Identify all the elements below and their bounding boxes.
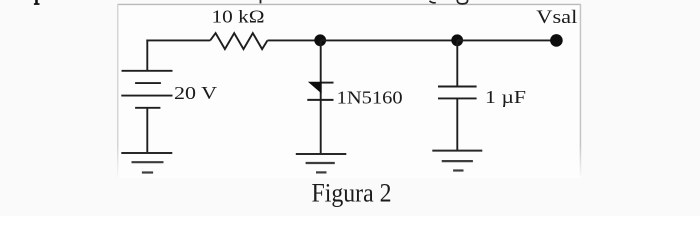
cropped text fragment: bottom of letter loop at top	[457, 0, 467, 4]
wire: resistor to node A	[268, 39, 321, 41]
wire: node B down to capacitor	[456, 40, 458, 86]
zener diode D1 triangle	[308, 82, 322, 94]
wire: battery top lead	[146, 40, 148, 71]
cropped text fragment: letter stem at top-left	[34, 0, 40, 5]
wire: top horizontal from battery to resistor	[146, 39, 210, 41]
battery V1 plate short lower	[135, 107, 160, 109]
ground symbol right	[432, 151, 482, 171]
svg-text:1N5160: 1N5160	[337, 87, 403, 107]
svg-text:20 V: 20 V	[174, 83, 217, 103]
frame box border right	[580, 4, 582, 176]
svg-text:1 µF: 1 µF	[485, 87, 526, 107]
node B junction dot	[451, 34, 463, 46]
ground symbol left	[121, 153, 172, 173]
battery V1 plate long lower	[121, 95, 172, 97]
wire: battery bottom lead	[146, 108, 148, 153]
resistor R (10 kOhm) zigzag	[210, 33, 267, 49]
output terminal dot Vsal	[550, 34, 563, 47]
frame box background	[118, 4, 581, 178]
frame box border left	[117, 4, 118, 177]
svg-text:Figura 2: Figura 2	[312, 178, 392, 207]
zener diode D1 cathode bar	[307, 99, 333, 101]
frame box border top	[118, 3, 581, 5]
zener diode D1 top bar	[321, 82, 334, 84]
wire: capacitor to ground	[456, 98, 458, 150]
capacitor C1 bottom plate	[438, 97, 477, 99]
svg-text:10 kΩ: 10 kΩ	[212, 7, 265, 27]
battery V1 plate long top	[122, 70, 173, 72]
cropped text fragment: descender tail near top center-right	[430, 1, 436, 3]
wire: node B to output terminal	[457, 39, 556, 41]
wire: node A to node B	[321, 39, 458, 41]
cropped text fragment: letter stem above resistor label	[260, 0, 262, 3]
svg-text:Vsal: Vsal	[536, 7, 577, 28]
battery V1 plate short	[135, 82, 161, 84]
wire: node A down to zener anode	[320, 40, 322, 154]
node A junction dot	[314, 34, 326, 46]
capacitor C1 top plate	[438, 86, 477, 88]
ground symbol middle	[296, 154, 347, 172]
